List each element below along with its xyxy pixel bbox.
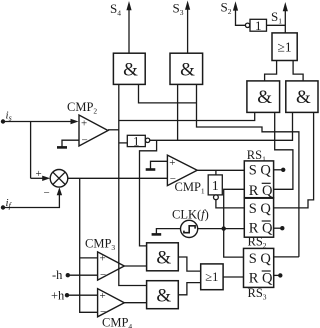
node +h input terminal bbox=[51, 289, 69, 303]
svg-text:-h: -h bbox=[52, 268, 63, 282]
wire summer left input arrow bbox=[31, 176, 51, 181]
wire CMP1 output to RS1.S bbox=[197, 169, 244, 171]
wire O2 output to RS3.R bbox=[223, 276, 243, 278]
svg-text:−: − bbox=[100, 269, 106, 281]
svg-text:S4: S4 bbox=[110, 1, 121, 18]
output S4 arrow bbox=[110, 1, 132, 53]
wire N2 output across to A6.in1 bbox=[150, 112, 293, 140]
svg-text:S2: S2 bbox=[221, 0, 232, 16]
flip-flop RS3 bbox=[244, 248, 274, 301]
svg-text:−: − bbox=[170, 173, 176, 185]
inverter N2 (NOT CMP2) bbox=[127, 133, 150, 148]
svg-text:RS1: RS1 bbox=[247, 148, 266, 164]
node is input terminal bbox=[1, 110, 12, 124]
svg-text:CMP2: CMP2 bbox=[67, 100, 97, 116]
comparator CMP2 bbox=[67, 100, 108, 147]
svg-text:1: 1 bbox=[212, 179, 219, 194]
output S1 arrow bbox=[271, 2, 288, 33]
wire is to CMP2 + input with arrow bbox=[3, 119, 79, 124]
svg-text:−: − bbox=[82, 135, 88, 147]
wire RS3.Q to vertical riser bbox=[274, 256, 299, 258]
wire clock up to RS1.R bbox=[224, 189, 245, 228]
inverter N3 (NOT CMP1) bbox=[208, 175, 222, 200]
wire O1 input leg left from A5 bbox=[265, 61, 277, 81]
wire A2.in1 drop to N2 net bbox=[177, 84, 179, 140]
comparator CMP1 bbox=[167, 155, 205, 195]
flip-flop RS1 bbox=[244, 148, 273, 199]
wire error branch to CMP3 + input bbox=[80, 257, 98, 259]
AND gate A2 (S3 output gate) bbox=[170, 53, 203, 84]
svg-text:+: + bbox=[100, 290, 106, 302]
wire is branch down to summer bbox=[30, 122, 32, 179]
svg-text:R Q: R Q bbox=[249, 183, 273, 199]
AND gate A1 (S4 output gate) bbox=[113, 53, 145, 84]
svg-text:&: & bbox=[257, 87, 272, 108]
svg-text:&: & bbox=[123, 60, 138, 81]
wire RS1.Qbar to A5.in2 bbox=[274, 112, 293, 189]
output S3 arrow bbox=[173, 1, 191, 54]
wire RS2.Qbar stub with node bbox=[274, 226, 285, 230]
svg-text:1: 1 bbox=[133, 133, 140, 148]
wire A3 output to O2 bbox=[178, 257, 200, 271]
wire CMP3 output to A3.in2 bbox=[124, 265, 146, 267]
wire error branch down to CMP3/CMP4 bbox=[80, 178, 98, 312]
OR gate O2 (bottom) bbox=[201, 264, 223, 290]
node -h input terminal bbox=[52, 268, 70, 282]
wire N3 output to RS2.S bbox=[216, 200, 244, 208]
svg-text:S3: S3 bbox=[173, 1, 184, 18]
svg-text:&: & bbox=[180, 60, 195, 81]
wire CMP2 net branch to A5.in1 bbox=[119, 112, 255, 120]
wire +h to CMP4 + input bbox=[67, 294, 98, 296]
svg-text:RS3: RS3 bbox=[248, 286, 267, 302]
AND gate A6 bbox=[286, 81, 318, 113]
node if input terminal bbox=[1, 197, 13, 210]
svg-text:R Q: R Q bbox=[249, 271, 273, 287]
wire S1 line to N1 input bbox=[267, 24, 286, 26]
wire RS1.Q stub with node bbox=[274, 168, 286, 172]
flip-flop RS2 bbox=[244, 198, 273, 250]
svg-text:+h: +h bbox=[51, 289, 65, 303]
svg-text:S Q: S Q bbox=[249, 251, 272, 267]
comparator CMP3 bbox=[85, 237, 124, 282]
svg-text:CMP1: CMP1 bbox=[175, 180, 205, 196]
comparator CMP4 bbox=[98, 289, 133, 328]
wire RS2.Q up to A6.in2 bbox=[274, 112, 314, 207]
svg-text:1: 1 bbox=[255, 18, 262, 33]
OR gate O1 (top, drives S1) bbox=[272, 33, 297, 61]
svg-text:&: & bbox=[296, 87, 311, 108]
wire clock to RS2.R bbox=[198, 228, 245, 230]
wire -h to CMP3 - input bbox=[68, 274, 98, 276]
svg-text:&: & bbox=[156, 248, 171, 269]
wire RS3.Q net up to A1.in2/A2.in2 bbox=[197, 84, 299, 257]
svg-text:+: + bbox=[100, 253, 106, 265]
wire N1 output to S2 arrow bbox=[221, 0, 246, 25]
svg-text:−: − bbox=[44, 187, 50, 199]
svg-text:CLK(f): CLK(f) bbox=[172, 208, 209, 222]
svg-text:S Q: S Q bbox=[249, 201, 272, 217]
wire clock down to RS3.S bbox=[224, 229, 244, 258]
svg-text:≥1: ≥1 bbox=[278, 40, 292, 55]
svg-text:CMP4: CMP4 bbox=[102, 316, 132, 328]
wire A4 output to O2 bbox=[178, 283, 200, 295]
svg-text:CMP3: CMP3 bbox=[85, 237, 115, 253]
wire CMP2 net vertical (A1.in1 down to A4.in1) bbox=[119, 84, 147, 285]
svg-text:+: + bbox=[81, 118, 87, 130]
wire CMP2 net branch to N2 input bbox=[119, 142, 128, 144]
wire A1.in2 to A2.in2 shared bbox=[139, 84, 197, 103]
svg-text:≥1: ≥1 bbox=[205, 270, 218, 284]
wire RS3.Qbar stub with node bbox=[274, 273, 283, 277]
wire CMP4 output to A4.in2 bbox=[124, 302, 146, 304]
summing junction bbox=[36, 168, 68, 199]
svg-text:+: + bbox=[169, 157, 175, 169]
AND gate A5 bbox=[247, 81, 280, 113]
clock CLK(f) bbox=[172, 208, 209, 238]
wire if to summer bottom arrow bbox=[3, 187, 62, 207]
wire O1 input leg right from A6 bbox=[293, 61, 303, 81]
svg-text:&: & bbox=[156, 286, 171, 307]
svg-text:S1: S1 bbox=[271, 9, 282, 26]
inverter N1 (S2 = NOT S1) bbox=[245, 18, 266, 33]
wire CMP2 output to vertical net bbox=[108, 129, 119, 131]
ground at CMP2 - input bbox=[57, 140, 79, 147]
wire branch CMP1 out to N3 bbox=[215, 170, 217, 175]
svg-text:is: is bbox=[6, 110, 12, 123]
node clock junction bbox=[222, 226, 226, 230]
summer output wire to CMP1 - input bbox=[68, 177, 168, 179]
ground at clock left bbox=[152, 229, 181, 235]
wire N2 net branch down to A3.in1 bbox=[140, 140, 157, 246]
AND gate A4 bbox=[147, 281, 179, 309]
svg-text:S Q: S Q bbox=[249, 163, 272, 179]
AND gate A3 bbox=[147, 243, 179, 271]
ground at CMP1 + input bbox=[146, 161, 168, 169]
